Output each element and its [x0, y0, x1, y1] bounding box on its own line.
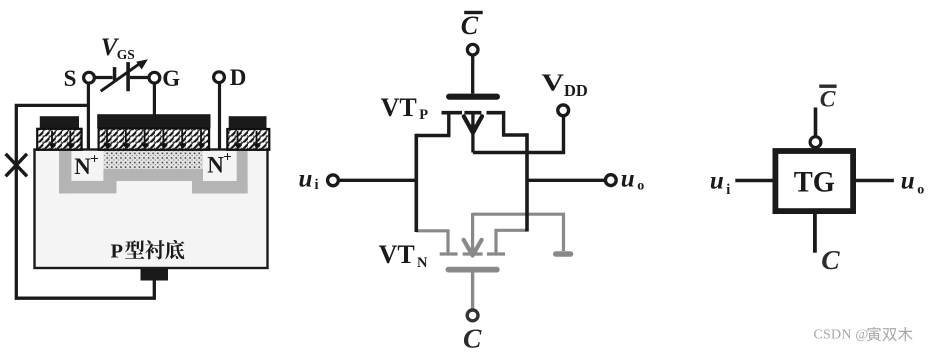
svg-text:u: u	[710, 168, 724, 195]
VTN channel segments (gray)	[440, 252, 505, 255]
svg-text:CSDN @: CSDN @	[814, 328, 869, 343]
wire substrate feedback loop (S to body)	[16, 105, 154, 298]
gate electrode metal electrode (black)	[97, 114, 210, 128]
terminal u_i	[328, 175, 339, 186]
svg-text:C: C	[463, 323, 482, 352]
VTP source lead	[416, 113, 450, 136]
svg-text:S: S	[64, 66, 77, 91]
terminal VDD	[558, 105, 569, 116]
VTP drain lead	[502, 113, 527, 135]
VTP gate bar	[449, 94, 497, 100]
terminal D	[214, 72, 225, 83]
wire TG to C	[813, 214, 817, 253]
wire u_i to TG	[735, 179, 772, 183]
label C-bar (TG)	[819, 85, 836, 88]
svg-text:D: D	[230, 65, 247, 90]
svg-text:G: G	[162, 66, 180, 91]
svg-text:DD: DD	[564, 81, 588, 100]
N+ well diffusion (gray) bridge under channel	[103, 169, 203, 181]
N+ well diffusion (gray) left wall	[59, 151, 71, 193]
terminal S	[84, 72, 95, 83]
svg-text:N: N	[207, 153, 224, 178]
induced channel (stippled)	[103, 151, 203, 169]
svg-text:VT: VT	[381, 93, 417, 122]
inversion bubble	[810, 137, 821, 148]
svg-text:u: u	[621, 166, 635, 193]
N+ well diffusion (gray) right bottom	[192, 181, 248, 194]
svg-text:P: P	[111, 241, 124, 263]
svg-text:o: o	[917, 182, 924, 197]
svg-text:GS: GS	[117, 47, 135, 62]
drain electrode oxide (hatched)	[227, 129, 269, 150]
VTN drain lead (gray)	[495, 230, 527, 253]
svg-text:C: C	[821, 244, 840, 275]
svg-text:VT: VT	[379, 240, 415, 269]
wire C-bar to bubble	[814, 108, 818, 137]
TG box U1	[775, 151, 853, 211]
VTN bulk stub bar (gray)	[556, 251, 571, 257]
variable-source arrow through VGS	[101, 62, 142, 91]
wire TG to u_o	[856, 179, 894, 183]
svg-text:C: C	[820, 86, 836, 112]
svg-text:u: u	[299, 165, 313, 192]
P-substrate body box	[35, 150, 268, 269]
svg-text:C: C	[461, 11, 479, 40]
body contact electrode	[141, 269, 169, 281]
VTP channel segments	[442, 111, 506, 115]
wire VGS source to G	[130, 76, 149, 79]
svg-text:P: P	[419, 107, 428, 123]
N+ well diffusion (gray) right wall	[237, 151, 248, 194]
VTN body arrow (gray)	[471, 213, 474, 251]
source electrode metal electrode (black)	[40, 116, 79, 129]
VTP body arrow	[471, 114, 474, 153]
wire S to VGS source	[95, 76, 113, 79]
wire C-bar to VTP gate	[471, 55, 474, 94]
gate electrode oxide (hatched)	[99, 128, 210, 150]
svg-text:+: +	[90, 152, 99, 168]
svg-text:+: +	[223, 149, 232, 165]
label C-bar (top, gate of VTP)	[464, 11, 483, 14]
X mark on body wire	[6, 154, 27, 177]
svg-text:i: i	[315, 177, 319, 193]
wire u_i to left rail	[339, 179, 417, 182]
terminal C-bar	[467, 44, 478, 55]
watermark CSDN @寅双木	[814, 327, 913, 343]
svg-text:TG: TG	[794, 166, 835, 199]
svg-text:u: u	[901, 168, 915, 195]
terminal C	[467, 310, 478, 321]
svg-text:N: N	[74, 154, 91, 179]
wire right rail to u_o	[527, 179, 605, 182]
drain electrode metal electrode (black)	[229, 116, 267, 129]
wire VTN gate to C (gray)	[471, 272, 474, 309]
VGS source long plate	[126, 62, 130, 91]
left rail	[414, 134, 418, 232]
svg-text:V: V	[542, 70, 565, 96]
right rail	[525, 133, 529, 231]
VGS source short plate	[113, 67, 117, 81]
wire VTP body to VDD	[473, 117, 564, 153]
svg-text:i: i	[726, 182, 730, 198]
wire G terminal down to gate	[153, 83, 156, 116]
N+ well diffusion (gray) left bottom	[59, 181, 117, 194]
terminal G	[149, 72, 160, 83]
source electrode oxide (hatched)	[37, 129, 81, 150]
VTN gate bar (gray)	[448, 267, 496, 273]
svg-text:o: o	[637, 178, 644, 193]
VTN source lead (gray)	[416, 231, 448, 253]
wire S terminal down into source	[87, 83, 90, 150]
terminal u_o	[605, 175, 616, 186]
wire VTN body to bulk stub (gray)	[473, 214, 564, 251]
wire D terminal down into drain	[218, 83, 221, 151]
svg-text:N: N	[417, 255, 428, 271]
